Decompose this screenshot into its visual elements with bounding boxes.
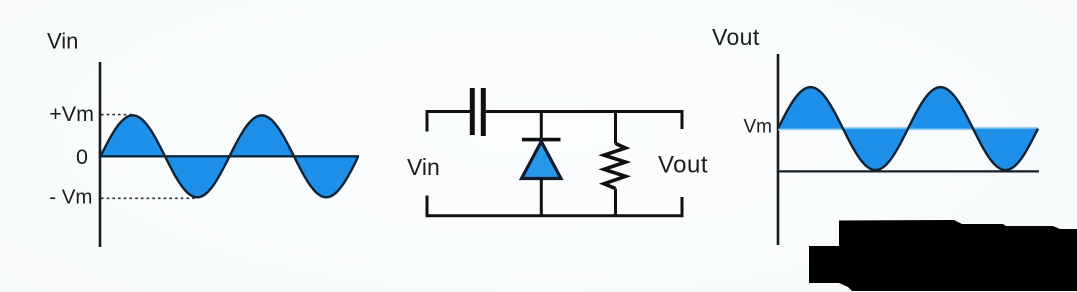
svg-text:0: 0 <box>76 145 88 169</box>
wire: bottom rail <box>427 196 682 216</box>
left waveform horizontal axis (0 line) <box>99 155 359 157</box>
output sine wave Vout fill <box>778 87 1038 170</box>
left waveform vertical axis <box>99 62 102 247</box>
input sine wave Vin fill <box>101 115 359 197</box>
output sine wave Vout outline <box>778 87 1038 170</box>
svg-text:Vin: Vin <box>407 154 440 180</box>
dashed line at +Vm level <box>101 114 132 116</box>
wire: top-right output stub <box>681 110 684 129</box>
input sine wave Vin outline <box>101 115 359 197</box>
wire: diode branch from top rail <box>540 112 543 142</box>
svg-text:Vm: Vm <box>744 117 773 138</box>
right waveform horizontal axis <box>777 170 1039 172</box>
svg-text:Vout: Vout <box>712 24 760 50</box>
svg-text:Vin: Vin <box>47 29 78 54</box>
dashed line at -Vm level <box>101 197 196 199</box>
capacitor C1 right plate <box>481 88 486 136</box>
black redaction blob <box>809 220 1077 291</box>
resistor R1 zigzag <box>604 144 626 189</box>
diode D1 triangle (anode) <box>522 142 562 179</box>
wire: resistor branch from top rail <box>614 112 617 144</box>
right waveform vertical axis <box>777 54 780 245</box>
diode D1 cathode bar <box>522 138 561 142</box>
svg-text:- Vm: - Vm <box>49 186 92 209</box>
wire: top rail from capacitor to output <box>486 110 682 113</box>
Vm level light line <box>778 127 1038 130</box>
wire: top-left input stub <box>427 112 470 132</box>
svg-text:Vout: Vout <box>658 152 708 179</box>
svg-text:+Vm: +Vm <box>49 102 94 126</box>
wire: diode anode to bottom rail <box>540 179 543 217</box>
wire: resistor to bottom rail <box>614 189 617 217</box>
capacitor C1 left plate <box>470 88 475 135</box>
